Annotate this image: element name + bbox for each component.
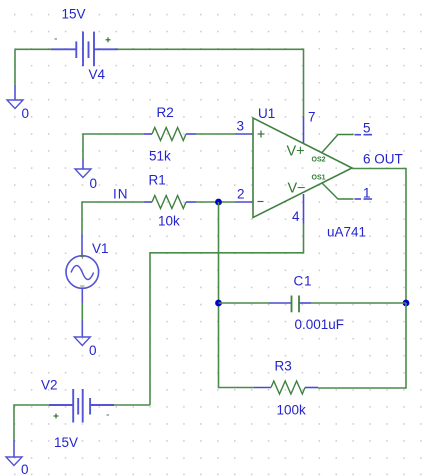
wire junction down to C1 node and R3	[219, 202, 255, 388]
svg-text:0: 0	[22, 106, 30, 121]
op-amp U1 triangle	[253, 118, 352, 218]
wire R1 to junction to pin2	[196, 201, 236, 203]
svg-text:C1: C1	[294, 274, 313, 289]
wire top-left vertical down to ground	[14, 49, 16, 85]
ground symbol 0 (V1)	[74, 337, 90, 346]
V1 bottom stub + wire + ground	[81, 288, 83, 303]
svg-text:2: 2	[237, 187, 245, 202]
pin 4 stub	[303, 194, 305, 224]
svg-text:OS1: OS1	[312, 175, 326, 182]
junction node at C1 left	[215, 300, 222, 307]
ground symbol 0 (top-left)	[7, 100, 23, 109]
svg-text:100k: 100k	[277, 403, 307, 418]
wire IN: R1 left corner down to V1	[82, 202, 144, 234]
V1 source	[81, 234, 83, 256]
wire top from V4 left to corner	[15, 48, 51, 50]
svg-text:R2: R2	[157, 105, 174, 120]
pin 1 stub	[322, 183, 372, 199]
junction node at R1 output	[215, 199, 222, 206]
svg-text:5: 5	[363, 121, 371, 136]
svg-text:0: 0	[21, 462, 29, 476]
svg-text:R1: R1	[149, 173, 166, 188]
plus mark in triangle	[258, 131, 265, 138]
pin 7 stub	[303, 117, 305, 144]
battery V2 plus mark	[54, 414, 59, 419]
wire pin4 down-left-down to V2	[150, 224, 304, 406]
svg-text:uA741: uA741	[327, 225, 366, 240]
wire V4 to pin7	[118, 49, 304, 117]
svg-text:15V: 15V	[54, 435, 78, 450]
capacitor C1	[219, 296, 407, 313]
ground pin stub top-left	[14, 85, 16, 100]
battery V4	[51, 32, 118, 67]
junction node at C1 right	[403, 300, 410, 307]
minus mark in triangle	[258, 201, 264, 203]
pin 3 stub	[236, 133, 254, 135]
svg-text:OS2: OS2	[312, 157, 326, 164]
svg-text:6 OUT: 6 OUT	[363, 152, 403, 167]
output wire pin6	[352, 169, 406, 304]
wire right vertical down to R3	[318, 303, 406, 388]
battery V4 plus mark	[106, 37, 111, 42]
svg-text:V+: V+	[287, 144, 305, 160]
svg-text:1: 1	[363, 186, 371, 201]
svg-text:R3: R3	[275, 359, 292, 374]
wire R2 left + down to ground	[83, 134, 144, 159]
wire V2 right to vertical	[114, 404, 150, 406]
svg-text:0: 0	[89, 343, 97, 358]
svg-text:V2: V2	[41, 378, 58, 393]
ground pin stub (V2)	[13, 440, 15, 457]
svg-text:V4: V4	[89, 67, 106, 82]
wire V2 left corner down to ground	[14, 405, 49, 440]
battery V2	[49, 389, 114, 423]
svg-text:V1: V1	[92, 241, 109, 256]
ground pin stub (R2)	[82, 159, 84, 169]
svg-text:7: 7	[308, 110, 316, 125]
svg-text:0.001uF: 0.001uF	[295, 317, 345, 332]
battery V4 minus mark	[55, 38, 58, 40]
svg-text:IN: IN	[113, 187, 129, 202]
wire R2 to pin3	[196, 133, 236, 135]
svg-text:3: 3	[237, 119, 245, 134]
resistor R2	[144, 128, 196, 141]
ground symbol 0 (R2)	[75, 169, 91, 178]
svg-text:10k: 10k	[158, 214, 180, 229]
resistor R1	[144, 196, 196, 209]
battery V2 minus mark	[107, 414, 110, 416]
svg-text:0: 0	[90, 176, 98, 191]
svg-text:4: 4	[292, 209, 300, 224]
svg-text:51k: 51k	[149, 149, 171, 164]
resistor R3	[254, 381, 318, 394]
pin 2 stub	[236, 201, 254, 203]
svg-text:U1: U1	[258, 106, 275, 121]
ground symbol 0 (bottom-left)	[6, 457, 22, 466]
svg-text:15V: 15V	[62, 7, 86, 22]
pin 5 stub	[322, 135, 372, 153]
